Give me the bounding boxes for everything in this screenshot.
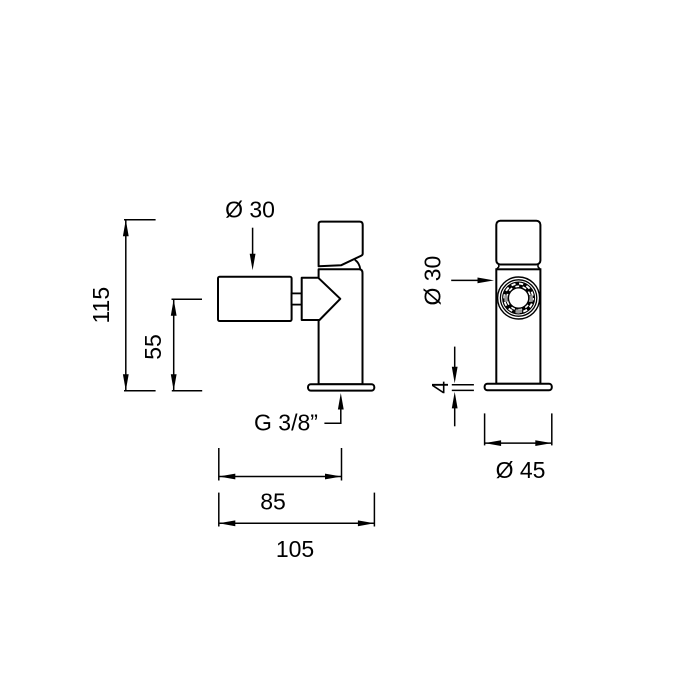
- left view: faucet body column: [319, 269, 363, 384]
- dimension: 105 line: [219, 522, 375, 524]
- dimension: 85 left extension: [218, 448, 220, 481]
- right view: aerator inner dashed highlights: [507, 286, 530, 309]
- right view: aerator black ring: [505, 284, 532, 311]
- right view: aerator outer dashed highlights: [504, 284, 533, 313]
- dimension: 4 upper line and arrow: [454, 347, 456, 368]
- left view: handle: [319, 222, 363, 267]
- dimension: 85 arrowheads: [219, 474, 236, 480]
- right view: body column: [496, 269, 540, 384]
- dimension: 85 line: [219, 476, 342, 478]
- left view: spout barrel: [218, 277, 292, 321]
- right view: handle: [496, 221, 540, 265]
- dimension: 115 bottom tick: [124, 390, 156, 392]
- dimension: 115 top tick: [124, 219, 156, 221]
- left view: neck arc right of handle: [355, 260, 361, 269]
- dimension: diameter 45 right extension: [551, 413, 553, 445]
- dimension: 115 arrowheads: [123, 220, 129, 237]
- dimension: diameter 45 arrowheads: [485, 440, 502, 446]
- dimension: 55 arrowheads: [171, 299, 177, 316]
- dimension: diameter 30 leader arrow (top): [252, 228, 254, 256]
- svg-text:115: 115: [88, 287, 114, 324]
- right view: neck: [497, 265, 541, 270]
- dimension: 55 line: [173, 299, 175, 390]
- dimension: 55 bottom tick: [172, 390, 202, 392]
- dimension: 115 line: [125, 220, 127, 391]
- svg-text:85: 85: [260, 489, 286, 515]
- dimension: 105 right extension: [373, 493, 375, 527]
- dimension: diameter 30 arrow (right view): [451, 279, 479, 281]
- svg-text:Ø 45: Ø 45: [496, 457, 546, 483]
- dimension: 4 lower line and arrow: [454, 407, 456, 426]
- left view: base flange: [308, 384, 374, 390]
- right view: aerator gray pads: [504, 295, 533, 313]
- dimension: 85 right extension: [341, 448, 343, 481]
- dimension: 4 ticks: [452, 384, 474, 386]
- right view: aerator second circle: [500, 280, 536, 316]
- svg-text:Ø 30: Ø 30: [225, 197, 275, 223]
- svg-text:55: 55: [140, 334, 166, 360]
- left view: pentagon spout joint: [302, 278, 341, 320]
- right view: aerator inner hole: [508, 288, 528, 308]
- dimension: G 3/8 leader line: [324, 408, 340, 423]
- dimension: 105 left extension: [218, 493, 220, 527]
- svg-text:4: 4: [427, 381, 453, 394]
- dimension: diameter 45 line: [485, 442, 552, 444]
- left view: connector block: [292, 293, 302, 304]
- dimension: 105 arrowheads: [219, 520, 236, 526]
- svg-text:Ø 30: Ø 30: [419, 256, 445, 306]
- svg-text:105: 105: [276, 536, 314, 562]
- right view: base flange: [485, 384, 552, 390]
- svg-text:G 3/8”: G 3/8”: [254, 409, 318, 435]
- dimension: 55 top tick: [172, 298, 203, 300]
- right view: aerator outer circle: [498, 277, 540, 319]
- dimension: diameter 45 left extension: [484, 413, 486, 445]
